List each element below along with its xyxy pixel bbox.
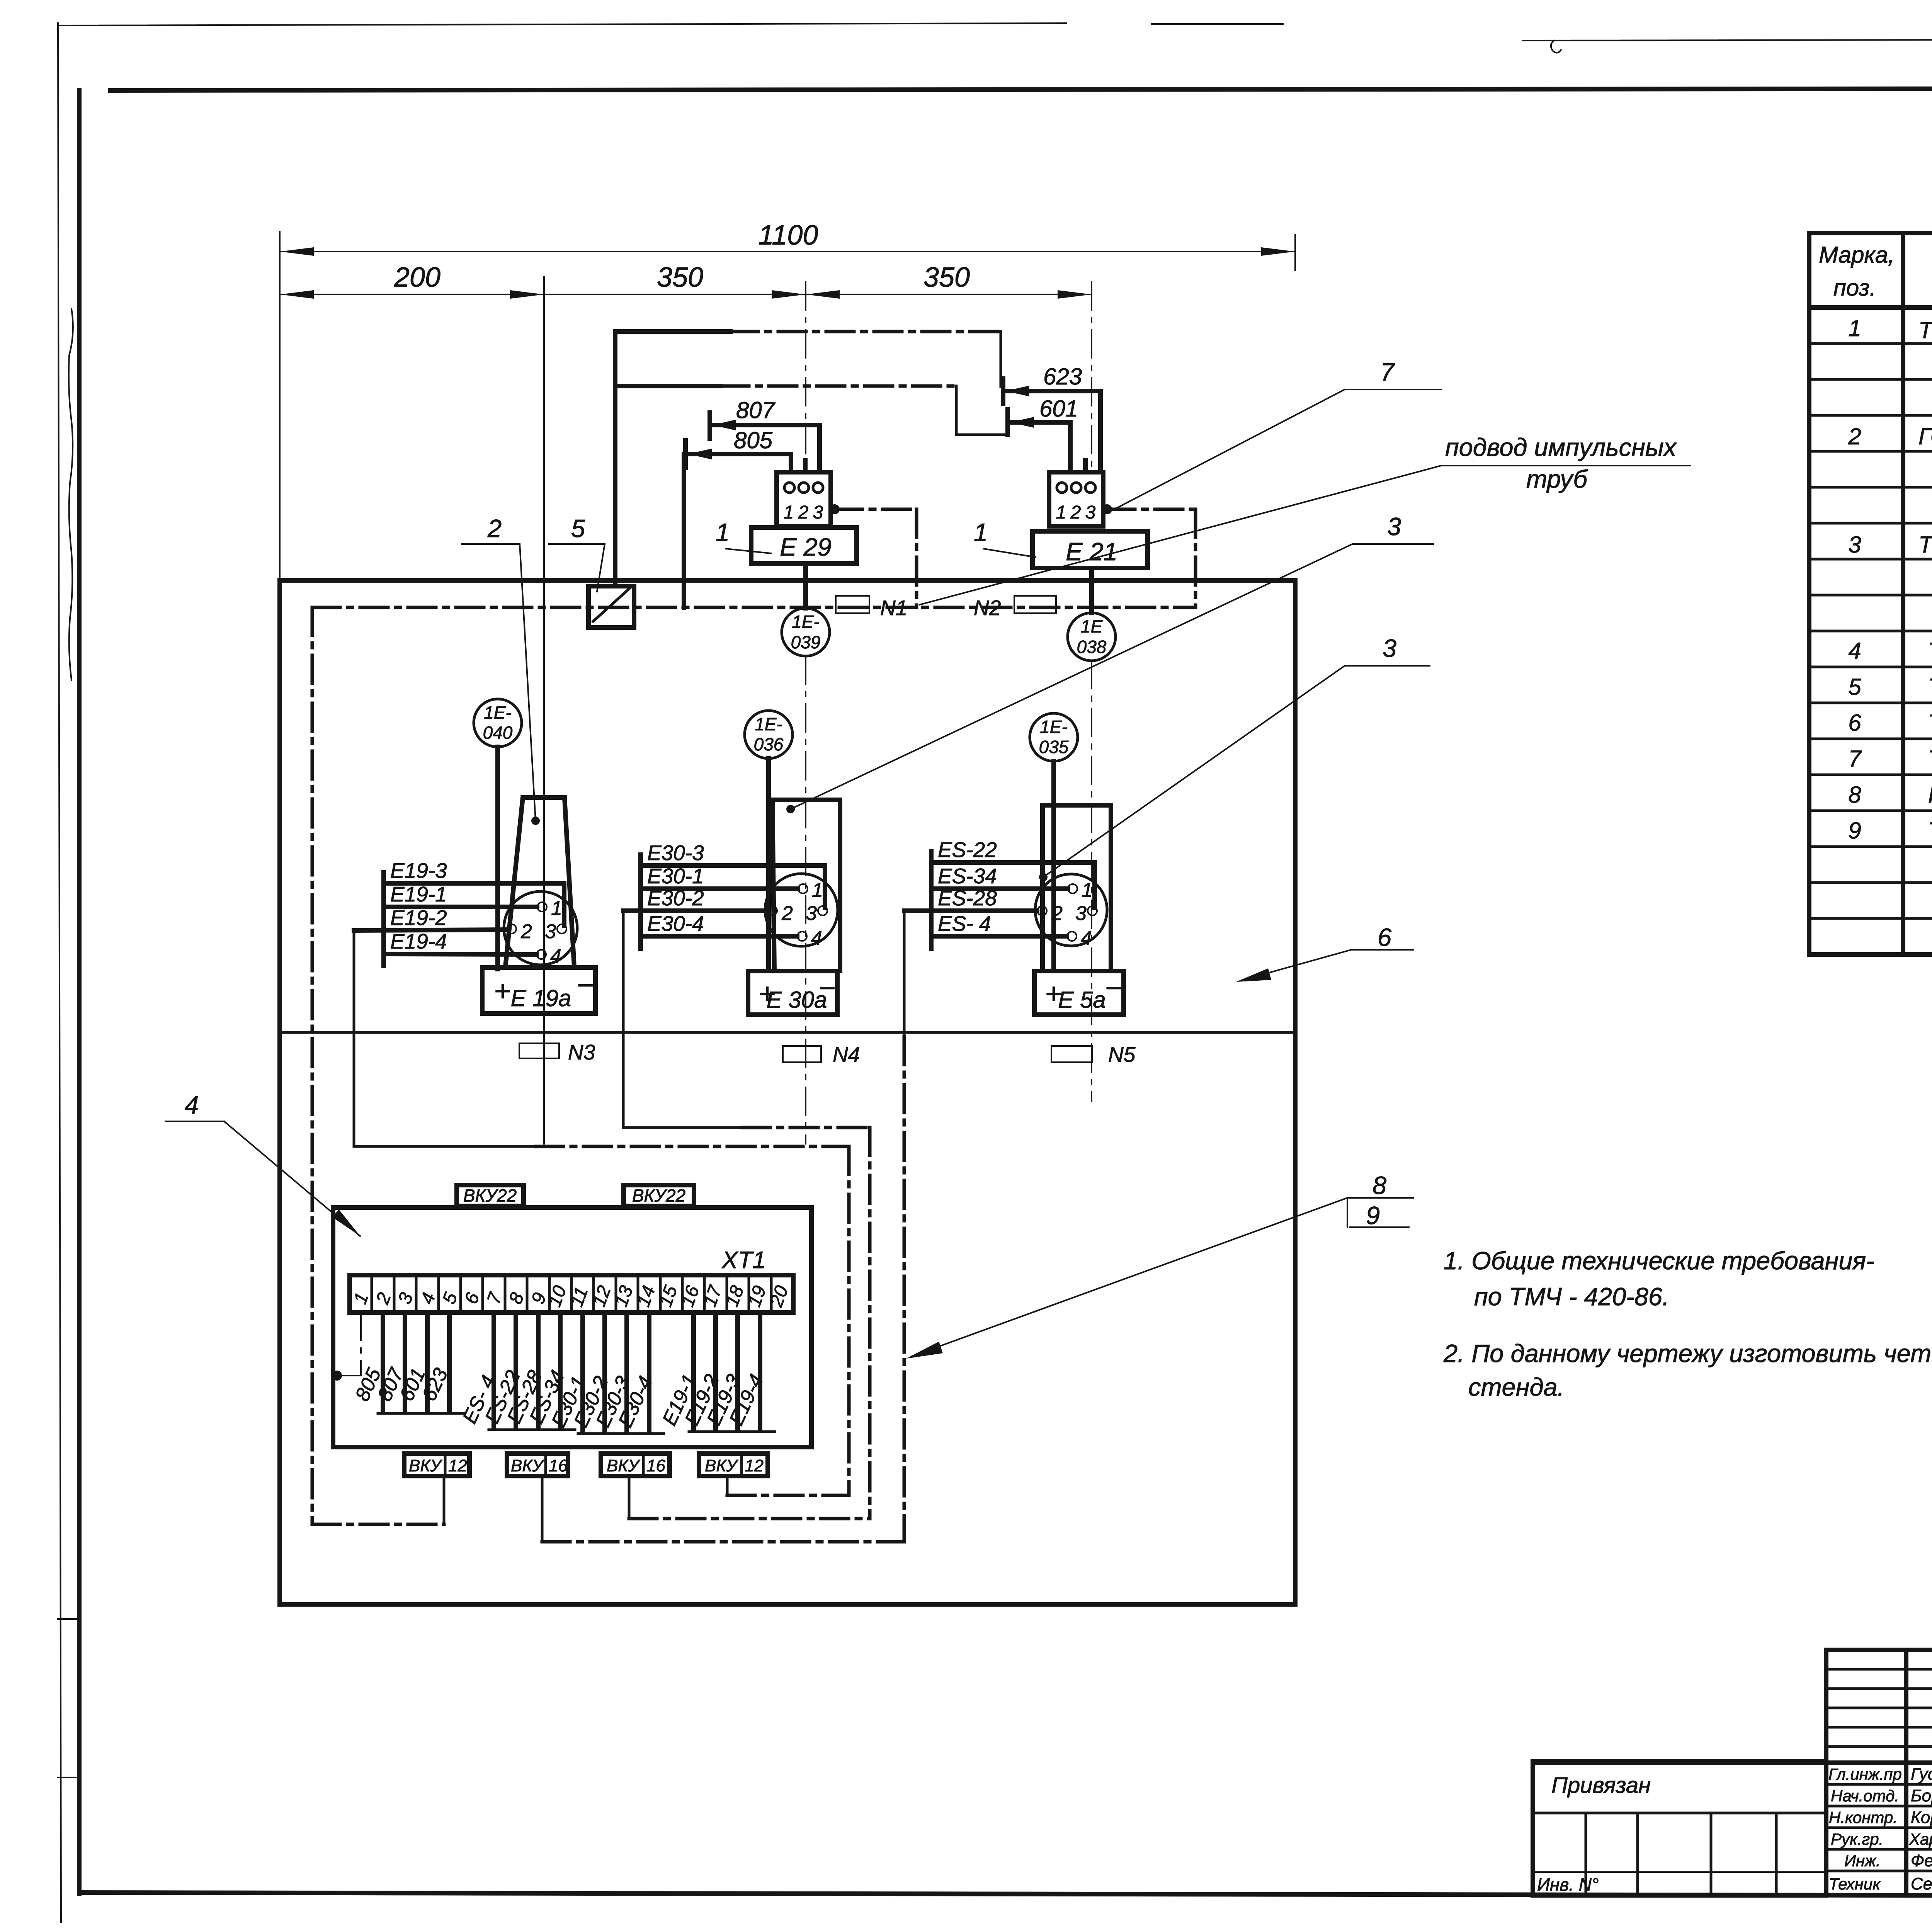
svg-text:N1: N1 [880,596,907,620]
wire 807 bar [707,413,712,439]
E29 impulse tap dot [830,504,840,514]
svg-text:ТУ36.2415-81: ТУ36.2415-81 [1928,674,1932,700]
stub wires group 4 [691,1313,696,1429]
svg-text:ГОСТ 20520-80: ГОСТ 20520-80 [1928,782,1932,808]
svg-text:ВКУ: ВКУ [705,1456,738,1475]
E19 bundle riser right [847,1146,851,1495]
stub bar group 1 [378,1412,464,1415]
svg-text:1E: 1E [1081,616,1103,636]
E30 bundle bottom dashdot [629,1517,870,1520]
wire E19-4 [384,954,536,954]
VKU box 4 [699,1454,768,1476]
parts table column line 1 [1901,233,1905,954]
wire E30-3 [641,866,825,908]
title block grid vertical 2 [1904,1650,1908,1895]
svg-text:ВКУ: ВКУ [607,1456,640,1475]
svg-text:6: 6 [461,1290,484,1306]
svg-text:1: 1 [1082,879,1093,901]
VKU box 3 [601,1454,670,1476]
E29 box [751,527,857,563]
svg-text:Харитонова: Харитонова [1909,1830,1932,1848]
svg-text:ES- 4: ES- 4 [938,912,991,935]
svg-text:1E-: 1E- [1040,717,1068,737]
E30d box [748,971,837,1015]
parts table header bottom [1809,305,1932,310]
svg-text:623: 623 [1043,364,1082,389]
E19 connector pins [537,902,547,912]
svg-text:E 19a: E 19a [511,985,571,1011]
wire 623 bar [1001,379,1005,404]
frame border bottom [79,1893,1932,1896]
svg-text:036: 036 [754,734,784,754]
svg-text:ТУ36.1276-76: ТУ36.1276-76 [1928,746,1932,772]
parts table outer box [1809,233,1932,954]
E21 column dashdot lower [1091,661,1092,1101]
svg-text:2: 2 [520,920,532,943]
svg-text:4: 4 [811,927,822,949]
E29 terminal pins [784,483,794,493]
frame tag N4 [783,1046,821,1062]
frame tag N3 [519,1043,559,1058]
bus A drop to 623 [1000,332,1002,386]
tag circle 1E-035 [1030,713,1078,761]
E19 bundle horizontal solid [354,1145,536,1148]
svg-text:E 5a: E 5a [1058,987,1105,1013]
svg-text:по ТМЧ - 420-86.: по ТМЧ - 420-86. [1474,1282,1669,1311]
wire 805 line [685,452,791,456]
E21 impulse dashdot vertical [1194,509,1197,607]
junction box diagonal [593,589,629,621]
dimension line 350 second [806,294,1092,295]
svg-text:4: 4 [550,945,561,968]
svg-text:12: 12 [448,1456,467,1475]
wire ES-22 [931,862,1095,908]
dimension line 200 [280,294,544,295]
E5 riser solid part [903,911,906,1037]
left bundle drop to VKU12 [443,1476,446,1524]
svg-text:Техник: Техник [1829,1875,1881,1893]
svg-text:Гусева: Гусева [1911,1765,1932,1784]
svg-text:807: 807 [736,397,776,423]
E21 impulse tap dot [1102,504,1112,514]
stub wires group 2 [492,1313,496,1427]
svg-text:1E-: 1E- [484,702,512,723]
svg-text:Инж.: Инж. [1844,1852,1881,1870]
E30 bundle riser right [868,1128,872,1519]
wire E19-2 [354,930,507,930]
svg-text:E30-4: E30-4 [647,912,704,935]
svg-text:Корчкова: Корчкова [1911,1808,1932,1827]
svg-text:4: 4 [1848,638,1861,664]
svg-text:Нач.отд.: Нач.отд. [1831,1787,1899,1805]
svg-text:ES-22: ES-22 [938,838,997,862]
svg-text:E30-3: E30-3 [647,841,704,865]
sheet top edge thin line right part [1522,39,1932,41]
svg-text:1: 1 [784,502,794,523]
frame border top [110,88,1932,90]
stub labels group 2 [458,1367,569,1427]
E5d box [1034,971,1124,1015]
wire ES-28 [904,908,1037,913]
attach box horizontal 2 [1533,1871,1826,1873]
svg-text:Н.контр.: Н.контр. [1829,1808,1898,1827]
frame tag N1 [836,596,869,613]
svg-text:4: 4 [417,1290,440,1307]
wire ES-4 [931,934,1067,939]
bus B link to 601 [956,434,1008,436]
svg-text:поз.: поз. [1833,275,1876,301]
svg-text:ТУ 25.02.160217-83: ТУ 25.02.160217-83 [1918,317,1932,343]
svg-text:038: 038 [1077,637,1107,657]
E29 bottom wire [803,563,808,608]
svg-text:5: 5 [1848,674,1861,700]
E5 wire bar [929,852,934,949]
bus B solid part [615,384,721,388]
frame border left outer [58,23,61,1922]
svg-text:ТУ36.2568-83: ТУ36.2568-83 [1928,638,1932,664]
tag circle 1E-038 [1068,613,1116,661]
svg-text:9: 9 [1848,818,1861,844]
XT1 cell1 ground wire [360,1313,362,1376]
svg-text:200: 200 [394,262,440,293]
svg-text:E 29: E 29 [780,533,832,561]
svg-text:5: 5 [571,514,585,543]
E21 impulse dashdot horizontal [1107,508,1196,511]
bus A dashdot part [730,330,1001,333]
dimension line 350 first [544,294,806,295]
attach box verticals [1585,1813,1587,1895]
svg-text:−: − [577,969,594,1001]
svg-text:N2: N2 [974,596,1001,620]
E30 bundle horizontal dashdot [742,1126,870,1129]
stub labels group 1 [351,1364,452,1405]
E21 column center line upper [1091,282,1092,472]
svg-text:3: 3 [395,1290,417,1306]
svg-text:2: 2 [487,514,502,543]
svg-text:3: 3 [806,902,817,925]
svg-text:040: 040 [483,723,513,743]
svg-text:2. По данному чертежу изготов: 2. По данному чертежу изготовить четыре [1443,1339,1932,1367]
svg-text:ES-34: ES-34 [938,864,997,888]
sensor E19 plus wire [495,747,500,969]
E5 bundle drop to VKU16 [541,1476,544,1542]
sensor E30 connector circle [765,874,838,946]
svg-text:E 21: E 21 [1066,537,1117,566]
E5 connector pins [1068,884,1077,893]
svg-text:ТУ6-05-1342-76: ТУ6-05-1342-76 [1928,818,1932,844]
E30 connector pins [798,884,808,893]
stub wires group 1 [381,1313,385,1410]
wire E19-3 [384,883,564,926]
wire 807 line [710,423,820,427]
svg-text:7: 7 [1848,746,1862,772]
svg-text:2: 2 [1070,502,1081,523]
wire riser bus vertical [613,332,617,586]
wire E19-1 [384,905,537,909]
sensor E5 body [1043,805,1111,971]
svg-text:2: 2 [798,502,809,523]
XT1 terminal strip [350,1275,793,1313]
sensor E19 connector circle [504,891,577,965]
svg-text:E30-1: E30-1 [647,864,704,888]
svg-text:1100: 1100 [759,220,818,251]
dimension edge tick right [1294,235,1296,270]
wire E30-4 [641,934,797,939]
svg-text:Борисов: Борисов [1911,1786,1932,1805]
sensor E19 body trapezoid [505,798,574,966]
left attach box [1533,1761,1826,1895]
E19 riser [353,930,355,1146]
svg-text:1: 1 [551,897,562,920]
svg-text:3: 3 [813,502,823,523]
svg-text:XT1: XT1 [721,1247,766,1274]
svg-text:ГОСТ 18140-77: ГОСТ 18140-77 [1918,423,1932,449]
svg-text:ВКУ22: ВКУ22 [632,1185,685,1206]
svg-text:ВКУ: ВКУ [409,1456,442,1475]
svg-text:E19-1: E19-1 [390,882,447,906]
stand outline top [280,578,1295,583]
E21 bottom wire [1089,568,1094,613]
stand divider line [280,1031,1295,1034]
small grid rows [1826,1669,1932,1747]
VKU22 box 1 [457,1185,524,1206]
left margin tick 1 [58,1618,79,1620]
svg-text:039: 039 [791,632,821,652]
svg-text:1E-: 1E- [792,612,820,632]
svg-text:8: 8 [1848,782,1861,808]
left cable dashdot vertical [311,607,314,1524]
svg-text:ВКУ: ВКУ [511,1456,544,1475]
E21 terminal box [1049,472,1103,526]
svg-text:1: 1 [812,879,823,901]
svg-text:труб: труб [1526,465,1588,493]
E19 wire bar [381,872,386,966]
E5 riser dashdot part [903,1037,906,1542]
sensor E30 body [772,800,840,971]
E29 impulse dashdot horizontal [835,508,917,511]
sensor E30 plus wire [766,759,771,971]
E5 bundle bottom dashdot [542,1540,904,1544]
dimension edge tick left [279,232,281,580]
svg-text:4: 4 [1081,927,1092,949]
svg-text:5: 5 [439,1290,462,1306]
frame tag N2 [1014,596,1056,613]
bus B drop [955,386,958,435]
wire 805 bar [683,440,688,468]
bus A solid part [615,329,730,334]
wire 601 bar [1005,410,1010,435]
svg-text:3: 3 [545,920,556,943]
svg-text:2: 2 [372,1290,395,1307]
left margin blotch [69,309,73,680]
svg-text:1: 1 [716,518,730,546]
impulse pipe bus dashdot [312,606,1196,609]
svg-text:9: 9 [1366,1201,1380,1230]
signature row lines [1826,1783,1932,1786]
stand outline right [1293,580,1298,1604]
svg-text:Семаева: Семаева [1911,1874,1932,1893]
svg-text:E19-2: E19-2 [390,906,447,930]
stub labels group 4 [658,1371,768,1429]
svg-text:N4: N4 [833,1043,860,1066]
svg-text:E30-2: E30-2 [647,886,704,910]
svg-text:Фетисова: Фетисова [1911,1851,1932,1870]
svg-text:2: 2 [1051,902,1063,925]
svg-text:подвод импульсных: подвод импульсных [1445,433,1677,461]
svg-text:E 30a: E 30a [767,987,827,1013]
svg-text:Гл.инж.пр: Гл.инж.пр [1828,1765,1902,1783]
svg-text:ТК4-546-86: ТК4-546-86 [1928,710,1932,736]
svg-text:1: 1 [1056,502,1066,523]
E19 bundle horizontal dashdot [536,1145,849,1148]
E30 bundle horizontal solid [623,1126,742,1129]
svg-text:ES-28: ES-28 [938,886,997,910]
E21 pin stubs [1068,422,1073,472]
svg-text:16: 16 [549,1456,568,1475]
svg-text:350: 350 [923,262,970,293]
E29 column dashdot lower [805,656,806,1144]
VKU box 1 [404,1454,469,1476]
svg-text:035: 035 [1039,737,1069,757]
svg-text:ВКУ22: ВКУ22 [463,1185,517,1206]
svg-text:1: 1 [974,518,988,546]
E30 bundle drop to VKU16 [628,1476,631,1519]
sensor E5 connector circle [1035,874,1107,946]
sensor E5 plus wire [1051,761,1056,971]
svg-text:+: + [494,975,511,1007]
svg-text:−: − [1105,971,1122,1004]
XT1 panel box [333,1207,811,1447]
E29 column center line upper [805,282,806,472]
wire 805 riser [682,454,686,607]
XT1 cell numbers [350,1282,793,1310]
svg-text:1. Общие технические требова: 1. Общие технические требования- [1444,1247,1874,1275]
svg-text:3: 3 [1383,634,1396,662]
left margin tick 2 [58,1777,79,1778]
E19d box [482,968,595,1014]
svg-text:4: 4 [185,1091,199,1119]
E21 box [1032,531,1148,568]
svg-text:6: 6 [1848,710,1861,736]
svg-text:3: 3 [1085,502,1096,523]
E30 riser [622,911,625,1128]
svg-text:20: 20 [766,1283,793,1310]
svg-text:ТУ 25.02.050-74: ТУ 25.02.050-74 [1918,532,1932,558]
E29 impulse dashdot vertical [915,509,918,607]
svg-text:Марка,: Марка, [1819,242,1895,268]
wire 601 line [1008,420,1070,425]
svg-text:8: 8 [1372,1171,1386,1199]
parts table row lines [1809,344,1932,918]
svg-text:Привязан: Привязан [1551,1773,1651,1798]
svg-text:601: 601 [1039,396,1078,422]
svg-text:16: 16 [646,1456,665,1475]
E30 wire bar [638,855,643,949]
wire ES-34 [931,886,1068,891]
sheet top edge thin line [59,23,1066,26]
wire E30-1 [641,886,798,891]
tag circle 1E-040 [474,699,522,747]
tag circle 1E-039 [782,608,830,656]
stand outline bottom [280,1602,1295,1607]
svg-text:3: 3 [1075,902,1087,925]
svg-text:3: 3 [1848,532,1861,558]
E19 column center line [543,277,545,1144]
svg-text:Инв. N°: Инв. N° [1537,1874,1599,1895]
svg-text:N3: N3 [568,1040,595,1064]
top center mark [1551,41,1561,53]
svg-text:Рук.гр.: Рук.гр. [1831,1830,1883,1848]
svg-text:1: 1 [1848,315,1861,341]
E21 terminal pins [1057,483,1067,493]
E29 terminal box [777,472,831,526]
stub bar group 4 [689,1430,775,1433]
wire 623 line [1003,389,1100,393]
svg-text:350: 350 [657,262,703,293]
bus B dashdot part [721,384,956,388]
svg-text:E19-4: E19-4 [390,929,447,953]
svg-text:805: 805 [734,427,773,453]
E19 bundle drop to VKU12 [726,1476,729,1495]
stub bar group 3 [578,1432,664,1435]
tag circle 1E-036 [745,711,793,759]
wire E30-2 [623,908,767,913]
stub wires group 3 [580,1313,585,1430]
title block outer top line [1826,1648,1932,1652]
VKU box 2 [507,1454,568,1476]
frame border left inner [77,90,82,1893]
svg-text:N5: N5 [1108,1043,1136,1066]
E29 pin stubs [789,454,793,472]
attach box horizontal 1 [1533,1812,1826,1815]
svg-text:1E-: 1E- [755,714,782,734]
stub bar group 2 [489,1429,575,1431]
stub labels group 3 [547,1373,657,1431]
E19 bundle bottom dashdot [727,1494,849,1497]
svg-text:7: 7 [1380,358,1395,386]
svg-text:7: 7 [483,1289,507,1306]
svg-text:E19-3: E19-3 [390,859,447,883]
dimension line 1100 [280,251,1295,252]
frame tag N5 [1051,1046,1092,1062]
title block grid vertical 1 [1824,1650,1828,1895]
VKU22 box 2 [624,1185,694,1206]
svg-text:3: 3 [1387,512,1401,541]
sheet top edge short dash [1151,23,1283,25]
svg-text:12: 12 [745,1456,764,1475]
svg-text:6: 6 [1378,923,1392,951]
svg-text:стенда.: стенда. [1468,1373,1565,1401]
main middle horizontal [1533,1760,1932,1765]
svg-text:2: 2 [1848,423,1861,449]
svg-text:1: 1 [350,1290,373,1307]
stand outline left [277,580,282,1604]
svg-text:2: 2 [781,902,793,925]
junction box 5 square [588,586,634,628]
svg-text:8: 8 [505,1290,528,1306]
left bundle bottom dashdot [312,1523,444,1526]
